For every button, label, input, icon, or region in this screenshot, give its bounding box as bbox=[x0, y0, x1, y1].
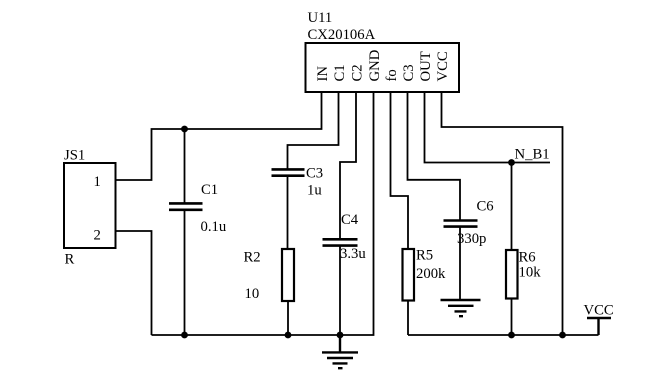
resistor R5 bbox=[403, 249, 415, 301]
resistor R2 bbox=[282, 249, 294, 301]
connector JS1 body bbox=[64, 163, 116, 248]
svg-text:C1: C1 bbox=[201, 182, 218, 198]
svg-text:N_B1: N_B1 bbox=[515, 147, 550, 163]
svg-text:GND: GND bbox=[367, 49, 383, 81]
wire pin C3 to C6 top bbox=[408, 92, 461, 220]
svg-text:C6: C6 bbox=[477, 198, 494, 214]
svg-text:OUT: OUT bbox=[418, 51, 434, 81]
svg-text:1: 1 bbox=[94, 174, 101, 190]
svg-text:R5: R5 bbox=[416, 248, 433, 264]
svg-text:1u: 1u bbox=[307, 182, 322, 198]
svg-text:U11: U11 bbox=[308, 10, 333, 26]
wire pin VCC to right rail bbox=[442, 92, 563, 335]
junction N_B1 bbox=[508, 159, 515, 166]
wire IN net: pin IN down, top rail, down to JS1 pin 1 bbox=[116, 92, 322, 180]
svg-text:330p: 330p bbox=[457, 231, 486, 247]
wire JS1 pin 2 to ground rail bbox=[116, 231, 152, 335]
svg-text:C4: C4 bbox=[341, 212, 359, 228]
junction rail / R2 bottom bbox=[285, 332, 292, 339]
svg-text:R6: R6 bbox=[519, 250, 536, 266]
svg-text:2: 2 bbox=[94, 228, 101, 244]
svg-text:VCC: VCC bbox=[435, 51, 451, 81]
IC U11 body bbox=[306, 43, 460, 92]
wire ground rail and GND pin bbox=[152, 92, 374, 335]
wire pin fo to R5 top bbox=[391, 92, 409, 249]
wire pin OUT to node N_B1 bbox=[425, 92, 512, 163]
svg-text:R: R bbox=[65, 252, 75, 268]
junction top rail / C1 bbox=[181, 126, 188, 133]
wire C3 bottom to R2 top bbox=[287, 176, 289, 249]
capacitor C3 bbox=[272, 169, 305, 175]
capacitor C6 bbox=[444, 221, 478, 227]
wire C1 top lead bbox=[184, 129, 186, 203]
wire C6 bottom lead bbox=[459, 227, 461, 300]
wire C1 bottom lead bbox=[184, 210, 186, 335]
svg-text:fo: fo bbox=[384, 69, 400, 81]
svg-text:200k: 200k bbox=[416, 266, 446, 282]
svg-text:10k: 10k bbox=[519, 265, 542, 281]
svg-text:R2: R2 bbox=[244, 250, 261, 266]
wire R6 bottom lead bbox=[511, 299, 513, 336]
capacitor C1 bbox=[169, 203, 203, 209]
ground symbol C6 bbox=[441, 300, 481, 316]
svg-text:CX20106A: CX20106A bbox=[308, 27, 376, 43]
wire pin C1 to C3 top bbox=[288, 92, 339, 169]
resistor R6 bbox=[506, 250, 518, 299]
junction rail / VCC pin wire bbox=[559, 332, 566, 339]
svg-text:C1: C1 bbox=[332, 64, 348, 81]
svg-text:JS1: JS1 bbox=[64, 148, 85, 164]
junction rail / C4 ground bbox=[337, 332, 344, 339]
svg-text:10: 10 bbox=[245, 286, 260, 302]
wire R5 bottom lead bbox=[407, 301, 409, 336]
wire C4 bottom lead bbox=[339, 246, 341, 335]
wire VCC rail bottom right bbox=[408, 334, 599, 336]
wire N_B1 to R6 top bbox=[511, 163, 513, 251]
ground symbol mid bbox=[322, 335, 358, 368]
capacitor C4 bbox=[323, 239, 358, 245]
junction rail / R6 bottom bbox=[508, 332, 515, 339]
wire pin C2 to C4 top bbox=[340, 92, 356, 239]
svg-text:C2: C2 bbox=[350, 64, 366, 81]
svg-text:IN: IN bbox=[315, 66, 331, 82]
junction rail / C1 bottom bbox=[181, 332, 188, 339]
svg-text:0.1u: 0.1u bbox=[201, 219, 227, 235]
net stub N_B1 bbox=[512, 162, 551, 164]
wire R2 bottom lead bbox=[287, 301, 289, 335]
svg-text:C3: C3 bbox=[306, 166, 323, 182]
power symbol VCC bbox=[587, 318, 611, 335]
svg-text:C3: C3 bbox=[401, 64, 417, 81]
svg-text:3.3u: 3.3u bbox=[340, 246, 366, 262]
svg-text:VCC: VCC bbox=[584, 303, 614, 319]
